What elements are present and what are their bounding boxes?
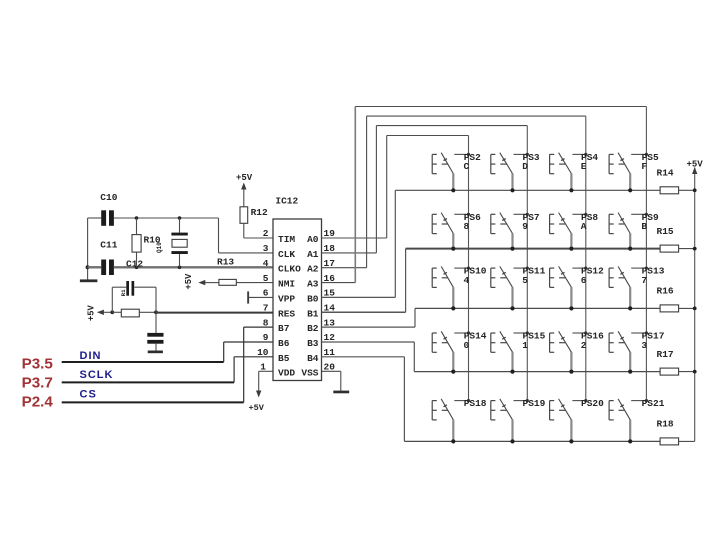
pushbutton PS6 xyxy=(432,213,470,251)
wire row 3 (B2 pin 13) xyxy=(322,308,661,327)
label key 5 xyxy=(522,275,528,286)
resistor R11 on RES line xyxy=(112,309,156,317)
svg-text:A0: A0 xyxy=(307,234,319,245)
label key C xyxy=(464,161,470,172)
svg-text:PS18: PS18 xyxy=(464,398,487,409)
IC12 pin numbers xyxy=(257,228,335,372)
svg-text:PS19: PS19 xyxy=(523,398,546,409)
svg-text:A: A xyxy=(581,221,587,232)
pushbutton PS11 xyxy=(491,266,529,310)
label CS xyxy=(80,388,97,400)
svg-text:DIN: DIN xyxy=(80,350,102,362)
resistor R17 xyxy=(660,368,695,375)
svg-text:R15: R15 xyxy=(657,226,674,237)
label PS7 xyxy=(523,212,540,223)
pushbutton PS4 xyxy=(550,153,588,193)
wire row 4 (B3 pin 12) xyxy=(322,342,661,372)
wire row 2 (B1 pin 14) xyxy=(322,249,661,313)
label PS13 xyxy=(642,266,665,277)
pushbutton PS13 xyxy=(609,266,648,310)
resistor R12 xyxy=(240,207,248,238)
label PS15 xyxy=(523,331,546,342)
label PS14 xyxy=(464,331,487,342)
label R16 xyxy=(657,286,674,297)
svg-text:RES: RES xyxy=(278,308,295,319)
svg-text:7: 7 xyxy=(263,303,269,314)
label PS6 xyxy=(464,212,481,223)
svg-text:4: 4 xyxy=(464,275,470,286)
svg-text:R17: R17 xyxy=(657,349,674,360)
label IC12 xyxy=(275,196,298,207)
svg-text:P3.7: P3.7 xyxy=(22,375,53,392)
capacitor C13 to ground xyxy=(147,312,163,350)
junction R10 bottom xyxy=(135,266,139,270)
svg-text:C12: C12 xyxy=(126,259,143,270)
IC12 pin names xyxy=(278,234,319,378)
label key 9 xyxy=(522,221,528,232)
svg-text:4: 4 xyxy=(263,258,269,269)
svg-text:B2: B2 xyxy=(307,323,319,334)
label C10 xyxy=(100,192,117,203)
svg-text:VDD: VDD xyxy=(278,367,295,378)
label R15 xyxy=(657,226,674,237)
label key 1 xyxy=(522,340,528,351)
svg-text:8: 8 xyxy=(464,221,470,232)
ground below C11 xyxy=(80,279,98,282)
label PS20 xyxy=(581,398,604,409)
label C11 xyxy=(100,240,117,251)
label PS11 xyxy=(523,266,546,277)
svg-text:7: 7 xyxy=(641,275,647,286)
svg-text:1: 1 xyxy=(522,340,528,351)
svg-text:IC12: IC12 xyxy=(275,196,298,207)
resistor R15 xyxy=(660,245,695,252)
resistor R16 xyxy=(660,305,695,312)
svg-text:B0: B0 xyxy=(307,293,319,304)
pushbutton PS9 xyxy=(609,213,648,251)
label PS3 xyxy=(523,152,540,163)
pushbutton PS15 xyxy=(491,331,529,373)
junction RES left xyxy=(110,310,114,314)
label PS4 xyxy=(581,152,598,163)
svg-text:+5V: +5V xyxy=(249,403,265,413)
svg-text:PS21: PS21 xyxy=(642,398,665,409)
svg-text:F: F xyxy=(641,161,647,172)
svg-text:SCLK: SCLK xyxy=(80,369,114,381)
label PS5 xyxy=(642,152,659,163)
label R14 xyxy=(657,168,674,179)
svg-text:9: 9 xyxy=(522,221,528,232)
label R10 xyxy=(144,235,161,246)
VPP terminator bar xyxy=(247,291,249,303)
label SCLK xyxy=(80,369,114,381)
svg-text:Q10: Q10 xyxy=(156,242,163,253)
svg-text:R16: R16 xyxy=(657,286,674,297)
wire RES to pin 7 xyxy=(156,312,273,314)
capacitor C11 xyxy=(101,260,114,276)
wire CLKO rail (pin 4 net) xyxy=(88,266,273,268)
pushbutton PS12 xyxy=(550,266,588,310)
junction rail row 1 xyxy=(693,188,697,192)
label R11 (rotated) xyxy=(120,289,127,296)
label key 6 xyxy=(581,275,587,286)
label R17 xyxy=(657,349,674,360)
+5V symbol above R12 xyxy=(236,173,253,207)
pushbutton PS3 xyxy=(491,153,529,193)
label P3.5 xyxy=(22,355,54,372)
junction Q10 top xyxy=(178,216,182,220)
resistor R10 xyxy=(132,218,141,267)
label PS16 xyxy=(581,331,604,342)
label PS21 xyxy=(642,398,665,409)
pushbutton PS19 xyxy=(491,399,529,444)
junction rail row 2 xyxy=(693,247,697,251)
+5V rail right xyxy=(694,168,696,442)
wire C10/C11 left vertical xyxy=(87,218,89,280)
svg-text:TIM: TIM xyxy=(278,234,295,245)
pushbutton PS10 xyxy=(432,266,470,310)
label key B xyxy=(641,221,647,232)
svg-text:5: 5 xyxy=(522,275,528,286)
svg-text:P2.4: P2.4 xyxy=(22,394,54,411)
junction C11 left xyxy=(86,265,90,269)
label key 7 xyxy=(641,275,647,286)
wire A2 (pin 17) to column 3 xyxy=(322,116,586,401)
capacitor C10 xyxy=(101,210,114,226)
crystal Q10 xyxy=(171,218,187,267)
svg-text:E: E xyxy=(581,161,587,172)
svg-text:B4: B4 xyxy=(307,353,319,364)
label P3.7 xyxy=(22,375,53,392)
ground below VSS xyxy=(333,391,349,394)
label R12 xyxy=(251,207,268,218)
svg-text:C11: C11 xyxy=(100,240,117,251)
svg-text:VPP: VPP xyxy=(278,293,295,304)
wire row 1 (B0 pin 15) xyxy=(322,190,661,297)
resistor R13 xyxy=(219,279,236,285)
pushbutton PS2 xyxy=(432,153,470,193)
svg-text:B3: B3 xyxy=(307,338,319,349)
svg-text:8: 8 xyxy=(263,317,269,328)
svg-text:B5: B5 xyxy=(278,353,290,364)
pushbutton PS8 xyxy=(550,213,588,251)
label key 0 xyxy=(464,340,470,351)
label key E xyxy=(581,161,587,172)
svg-text:C10: C10 xyxy=(100,192,117,203)
svg-text:B: B xyxy=(641,221,647,232)
label DIN xyxy=(80,350,102,362)
label PS9 xyxy=(642,212,659,223)
svg-text:CLKO: CLKO xyxy=(278,264,301,275)
svg-text:0: 0 xyxy=(464,340,470,351)
svg-text:20: 20 xyxy=(324,362,336,373)
svg-text:A2: A2 xyxy=(307,264,319,275)
pushbutton PS20 xyxy=(550,399,588,444)
label PS19 xyxy=(523,398,546,409)
svg-text:D: D xyxy=(522,161,528,172)
svg-text:VSS: VSS xyxy=(301,367,318,378)
svg-text:+5V: +5V xyxy=(236,173,253,183)
ground below C13 xyxy=(148,351,163,354)
wire DIN (node P3.5 to pin 9) xyxy=(62,342,273,362)
label key 4 xyxy=(464,275,470,286)
svg-text:A1: A1 xyxy=(307,249,319,260)
resistor R14 xyxy=(660,187,695,194)
svg-text:R1: R1 xyxy=(120,289,127,296)
pushbutton PS16 xyxy=(550,331,588,373)
svg-text:R14: R14 xyxy=(657,168,674,179)
svg-text:R13: R13 xyxy=(217,256,234,267)
label key 3 xyxy=(641,340,647,351)
svg-text:NMI: NMI xyxy=(278,279,295,290)
wire SCLK (node P3.7 to pin 10) xyxy=(62,357,273,383)
label PS10 xyxy=(464,266,487,277)
label C12 xyxy=(126,259,143,270)
svg-text:6: 6 xyxy=(263,288,269,299)
svg-text:1: 1 xyxy=(260,362,266,373)
label Q10 (rotated) xyxy=(156,242,163,253)
pushbutton PS17 xyxy=(609,331,648,373)
label key 8 xyxy=(464,221,470,232)
capacitor C12 parallel branch xyxy=(112,281,156,312)
IC IC12 body xyxy=(273,219,322,381)
svg-text:B1: B1 xyxy=(307,308,319,319)
svg-text:R12: R12 xyxy=(251,207,268,218)
svg-text:C: C xyxy=(464,161,470,172)
svg-text:3: 3 xyxy=(263,243,269,254)
svg-text:3: 3 xyxy=(641,340,647,351)
+5V symbol below VDD xyxy=(249,391,265,414)
wire R12 to pin 2 (TIM) xyxy=(244,237,273,239)
svg-text:5: 5 xyxy=(263,273,269,284)
pushbutton PS5 xyxy=(609,153,648,193)
svg-text:2: 2 xyxy=(581,340,587,351)
svg-text:R18: R18 xyxy=(657,419,674,430)
svg-text:B7: B7 xyxy=(278,323,290,334)
junction rail row 4 xyxy=(693,370,697,374)
wire R13 to pin 5 (NMI) xyxy=(236,282,273,284)
label R13 xyxy=(217,256,234,267)
svg-text:CS: CS xyxy=(80,388,97,400)
+5V symbol top right xyxy=(687,159,704,174)
wire row 5 (B4 pin 11) xyxy=(322,357,661,442)
wire A3 (pin 16) to column 4 xyxy=(322,107,647,401)
label key D xyxy=(522,161,528,172)
svg-text:9: 9 xyxy=(263,332,269,343)
resistor R18 xyxy=(660,438,695,445)
wire C10 right plate to CLK corner (node XTAL1) xyxy=(114,218,273,253)
label key F xyxy=(641,161,647,172)
junction R10 top xyxy=(135,216,139,220)
label R18 xyxy=(657,419,674,430)
+5V symbol left of R13 xyxy=(184,273,219,290)
label PS2 xyxy=(464,152,481,163)
svg-text:6: 6 xyxy=(581,275,587,286)
svg-text:P3.5: P3.5 xyxy=(22,355,54,372)
label PS8 xyxy=(581,212,598,223)
junction RES right xyxy=(154,310,158,314)
svg-text:A3: A3 xyxy=(307,279,319,290)
wire pin 1 (VDD) to +5V xyxy=(259,371,273,391)
wire CS (node P2.4 to pin 8) xyxy=(62,327,273,402)
svg-text:+5V: +5V xyxy=(184,273,194,290)
+5V symbol left of RES xyxy=(87,304,113,321)
wire A0 (pin 19) to column 1 xyxy=(322,136,469,401)
svg-text:PS20: PS20 xyxy=(581,398,604,409)
pushbutton PS7 xyxy=(491,213,529,251)
svg-text:+5V: +5V xyxy=(87,304,97,321)
junction Q10 bottom xyxy=(178,266,182,270)
svg-text:B6: B6 xyxy=(278,338,290,349)
pushbutton PS21 xyxy=(609,399,648,444)
junction rail row 3 xyxy=(693,307,697,311)
label P2.4 xyxy=(22,394,54,411)
label key A xyxy=(581,221,587,232)
label PS12 xyxy=(581,266,604,277)
pushbutton PS18 xyxy=(432,399,470,444)
svg-text:10: 10 xyxy=(257,347,269,358)
svg-text:CLK: CLK xyxy=(278,249,295,260)
wire A1 (pin 18) to column 2 xyxy=(322,126,528,401)
svg-text:2: 2 xyxy=(263,228,269,239)
label PS17 xyxy=(642,331,665,342)
label key 2 xyxy=(581,340,587,351)
pushbutton PS14 xyxy=(432,331,470,373)
wire pin 6 (VPP) stub xyxy=(248,296,273,298)
label PS18 xyxy=(464,398,487,409)
wire pin 20 (VSS) to ground xyxy=(322,371,341,391)
wire +5V node to C10 left plate xyxy=(88,217,102,219)
